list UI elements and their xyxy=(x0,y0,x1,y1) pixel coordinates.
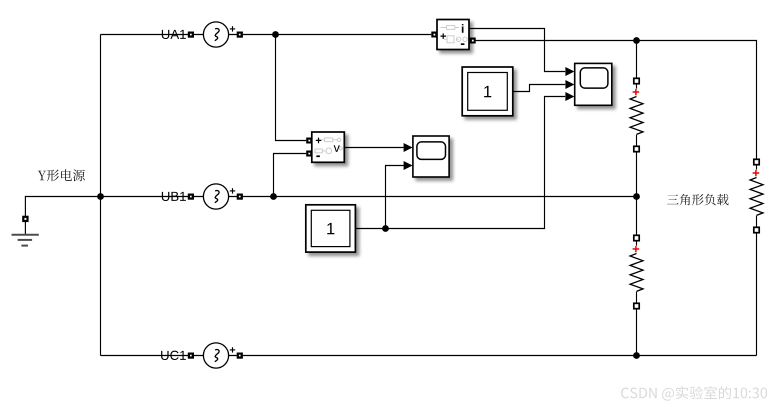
wire CM i output to Scope1 xyxy=(469,29,565,72)
resistor R3 (A-C) xyxy=(750,165,763,227)
resistor R1 (A-B) xyxy=(630,84,643,146)
AC voltage source UA1 xyxy=(162,22,243,47)
wire Constant1 to Scope1 xyxy=(513,85,565,92)
scope Scope2 xyxy=(404,136,450,177)
watermark CSDN xyxy=(621,386,767,401)
wire Constant2 output xyxy=(355,97,565,229)
port 1 of R3 (A-C) xyxy=(754,159,759,164)
node phase C R2 junction xyxy=(633,352,640,359)
label UC1 xyxy=(161,351,186,360)
port 2 of UB1 xyxy=(237,194,243,200)
node phase B left junction xyxy=(97,193,104,200)
wire left neutral rail xyxy=(100,35,102,356)
constant block Constant1 value 1 xyxy=(462,67,513,116)
voltage measurement block VM xyxy=(306,132,344,162)
body circle of UC1 xyxy=(203,343,228,368)
port 1 of UB1 xyxy=(188,194,194,200)
wire junction to Scope2 input 2 xyxy=(386,166,404,229)
wire R2 top drop xyxy=(636,197,638,236)
port 2 of UA1 xyxy=(237,32,243,38)
node phase A junction xyxy=(272,31,279,38)
port 2 of R3 (A-C) xyxy=(754,227,759,232)
port 2 of UC1 xyxy=(237,353,243,359)
wire VM minus input xyxy=(274,154,307,197)
wire R2 bottom to C rail xyxy=(636,306,638,356)
node Constant2 wire junction xyxy=(382,225,389,232)
wire VM output to Scope2 xyxy=(345,147,404,149)
wire phase A rail xyxy=(101,34,432,36)
body circle of UA1 xyxy=(203,22,228,47)
VM port minus xyxy=(306,151,312,157)
CM input port xyxy=(431,32,437,38)
port 1 of R2 (B-C) xyxy=(634,235,639,240)
ground symbol xyxy=(12,235,39,246)
node phase B R junction xyxy=(633,193,640,200)
wire VM plus input xyxy=(276,35,307,141)
plus sign of UC1 xyxy=(230,347,235,352)
wire R3 bottom to C rail xyxy=(756,230,758,356)
port 2 of R2 (B-C) xyxy=(634,303,639,308)
label delta load xyxy=(667,194,729,206)
node CM minus R1 junction xyxy=(633,37,640,44)
VM port plus xyxy=(306,138,312,144)
wire ground stub xyxy=(24,222,26,234)
wire phase C rail xyxy=(101,355,757,357)
CM minus output port xyxy=(470,38,476,44)
current measurement block CM xyxy=(431,20,475,50)
ground port xyxy=(22,216,28,222)
wire R1 bottom to B rail xyxy=(636,149,638,197)
constant block Constant2 value 1 xyxy=(306,205,356,252)
AC voltage source UB1 xyxy=(162,184,243,209)
body circle of UB1 xyxy=(203,184,228,209)
label UB1 xyxy=(162,192,186,201)
polarity plus of R3 (A-C) xyxy=(753,170,760,176)
sine squiggle of UC1 xyxy=(215,350,219,362)
polarity plus of R2 (B-C) xyxy=(633,246,640,252)
plus sign of UB1 xyxy=(230,188,235,193)
port 1 of R1 (A-B) xyxy=(634,78,639,83)
AC voltage source UC1 xyxy=(161,343,243,368)
port 2 of R1 (A-B) xyxy=(634,146,639,151)
label Y source xyxy=(38,169,85,181)
wire ground branch xyxy=(25,197,100,216)
plus sign of UA1 xyxy=(230,26,235,31)
polarity plus of R1 (A-B) xyxy=(633,89,640,95)
node phase B VM junction xyxy=(270,193,277,200)
sine squiggle of UB1 xyxy=(215,191,219,203)
scope Scope1 xyxy=(565,63,611,105)
label UA1 xyxy=(162,30,186,39)
resistor R2 (B-C) xyxy=(630,241,643,303)
wire phase B rail xyxy=(101,196,637,198)
port 1 of UC1 xyxy=(188,353,194,359)
wire R1 top drop xyxy=(636,41,638,79)
wire CM minus continuation xyxy=(476,41,757,160)
port 1 of UA1 xyxy=(188,32,194,38)
sine squiggle of UA1 xyxy=(215,29,219,41)
